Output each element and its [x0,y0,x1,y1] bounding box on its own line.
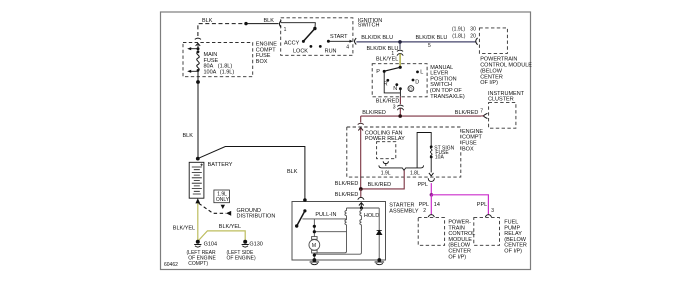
svg-text:BOX: BOX [256,59,268,65]
svg-text:BLK/YEL: BLK/YEL [376,56,398,62]
cooling fan power relay box [377,142,396,159]
svg-text:SWITCH: SWITCH [358,23,380,29]
ground G104 [194,240,201,247]
svg-text:3: 3 [491,208,494,214]
svg-text:ONLY: ONLY [216,197,230,203]
svg-text:PPL: PPL [418,182,428,188]
ground at diode branch [375,262,385,265]
svg-text:5: 5 [428,43,431,49]
svg-text:DISTRIBUTION: DISTRIBUTION [237,214,276,220]
wire coil bottom to motor line [314,231,346,233]
svg-text:1: 1 [284,27,287,33]
wire PPL vertical [430,183,432,195]
svg-text:BLK: BLK [202,18,213,24]
wire PPL to fuel pump relay [431,195,488,215]
ground under motor [310,262,320,265]
connector below fuse box on PPL [428,178,434,181]
svg-text:(1.9L): (1.9L) [220,70,235,76]
wire BLK dashed from main fuse box to splice [198,24,246,36]
svg-text:3: 3 [393,105,396,111]
svg-text:OF I/P): OF I/P) [448,254,466,260]
border frame [161,12,531,270]
node PPL junction [430,193,434,197]
svg-text:(1.8L): (1.8L) [452,33,465,39]
svg-text:100A: 100A [204,70,217,76]
wire dashed ground distribution [199,203,226,213]
wire BLK/DK BLU ignition to PCM [356,41,476,43]
wire BLK/RED bracket to starter junction [361,170,405,189]
svg-text:BLK/RED: BLK/RED [368,182,392,188]
wire stub below junction [399,42,401,49]
node splice on BLK wire [244,22,247,25]
box 1.9L ONLY [214,190,230,203]
starter switch contact [303,209,306,212]
connector at main fuse box top [195,38,201,46]
wire BLK/RED connector to junction [399,108,401,116]
svg-text:CLUSTER: CLUSTER [488,97,514,103]
svg-text:G130: G130 [249,242,262,248]
svg-text:BLK/YEL: BLK/YEL [219,224,241,230]
wire BLK/RED from MLPS pin 3 [399,97,401,104]
wire BLK/YEL battery to G104 [197,203,199,241]
diode [377,230,382,234]
wire motor to ground [313,253,315,260]
svg-text:ASSEMBLY: ASSEMBLY [389,208,419,214]
svg-text:N: N [393,86,397,92]
svg-text:20: 20 [470,33,476,39]
svg-text:R: R [384,81,388,87]
svg-text:TRANSAXLE): TRANSAXLE) [430,94,465,100]
svg-text:1.9L: 1.9L [381,170,391,176]
connector on BLK/RED [397,105,403,110]
powertrain control module box [479,28,507,54]
connector below relay [383,161,388,166]
svg-text:OF ENGINE): OF ENGINE) [227,256,257,262]
powertrain control module box (bottom) [418,218,444,246]
svg-text:P: P [376,69,380,75]
coil hold [314,208,361,254]
node battery wire at box edge [303,198,307,202]
battery [189,162,204,198]
svg-text:D: D [415,79,419,85]
svg-text:BLK/DK BLU: BLK/DK BLU [416,35,448,41]
svg-text:OF I/P): OF I/P) [504,249,522,255]
svg-text:ACCY: ACCY [284,40,300,46]
svg-text:14: 14 [434,202,440,208]
wire BLK solid splice to ignition switch [246,23,279,25]
svg-text:LOCK: LOCK [293,48,308,54]
ignition switch box [281,18,353,56]
connector at ignition switch output [355,38,357,44]
svg-text:BLK/RED: BLK/RED [455,110,479,116]
svg-text:4: 4 [346,45,349,51]
svg-text:(1.9L): (1.9L) [452,26,465,32]
svg-text:2: 2 [423,208,426,214]
wire BLK/RED down into engine compt fuse box [360,116,362,189]
engine compt fuse box (main fuse) [183,43,253,77]
svg-text:BLK/RED: BLK/RED [335,192,359,198]
coil pull-in [316,208,347,253]
arrow from 1.9L ONLY box [221,205,225,209]
ignition switch contacts and wiper [281,23,353,48]
wire BLK battery to starter [198,147,305,200]
wire to st sign fuse [417,133,431,168]
arrow out of fuse box [429,173,434,176]
wire fuse to box bottom [430,157,432,172]
wire pull-in feed [302,218,346,220]
connector on BLK/YEL wire [397,50,403,56]
fuse ST SIGN FUSE 10A [430,145,433,158]
connector at starter solenoid [358,197,364,199]
svg-text:BLK: BLK [183,133,194,139]
ground G130 [242,240,249,247]
starter assembly box [292,202,386,261]
svg-text:7: 7 [480,108,483,114]
battery negative terminal arrow [195,198,200,203]
node below fuse box [196,80,200,84]
motor M [309,237,320,253]
manual lever position switch box [372,64,427,97]
svg-text:PPL: PPL [419,202,429,208]
fuse MAIN FUSE 80A/100A [187,43,199,82]
MLPS wiper and contacts [383,66,419,97]
svg-text:SWITCH: SWITCH [430,82,452,88]
wire BLK fuse box to battery [197,82,199,159]
svg-text:HOLD: HOLD [364,213,379,219]
node battery positive [196,157,200,161]
svg-text:PPL: PPL [477,202,487,208]
node on BLK/DK BLU wire [398,40,402,44]
arrow into starter [359,203,364,208]
svg-text:30: 30 [470,26,476,32]
connector at fuel pump relay pin 3 [485,215,491,217]
svg-text:BLK: BLK [264,18,275,24]
svg-text:10A: 10A [435,155,445,161]
connector arrow at instrument cluster [483,113,487,118]
svg-text:1.8L: 1.8L [410,170,420,176]
svg-text:BOX: BOX [462,146,474,152]
node BLK/RED starter junction [359,187,363,191]
wire diode branch [378,208,380,260]
connector at PCM pin 2 [428,215,434,217]
connector pin 1 ignition switch [279,20,281,27]
svg-text:M: M [312,243,316,249]
svg-text:POWER RELAY: POWER RELAY [365,136,405,142]
wire PPL to PCM pin 2 [430,195,432,215]
svg-text:60462: 60462 [164,262,178,268]
svg-text:COMPT): COMPT) [188,261,208,267]
wire solenoid top feed [347,207,380,209]
svg-text:BLK/RED: BLK/RED [376,99,400,105]
arrow ground distribution [226,211,231,216]
svg-text:L: L [420,69,423,75]
svg-text:BLK/RED: BLK/RED [362,110,386,116]
wire BLK/RED junction to starter [360,189,362,197]
wire BLK/RED horizontal to instrument cluster [361,115,482,117]
wire BLK/YEL to MLPS [399,54,401,68]
wire BLK/YEL branch to G130 [198,231,245,242]
fuel pump relay box [474,218,500,246]
node diode to ground [377,258,381,262]
svg-text:BLK: BLK [287,169,298,175]
engine compt fuse box (cooling fan relay / st sign fuse) [347,127,461,177]
svg-text:START: START [330,34,348,40]
svg-text:BLK/YEL: BLK/YEL [173,225,195,231]
node solenoid top [360,206,363,209]
svg-text:G104: G104 [204,242,217,248]
svg-text:OF I/P): OF I/P) [480,80,498,86]
bracket connectors 1.9L 1.8L [379,165,424,170]
svg-text:BLK/DK BLU: BLK/DK BLU [361,35,393,41]
svg-text:RUN: RUN [325,48,337,54]
node BLK/RED junction [398,114,402,118]
motor feed line [313,219,315,237]
connector at PCM [476,38,478,45]
instrument cluster box [489,103,516,129]
svg-text:BATTERY: BATTERY [208,162,233,168]
svg-text:BLK/RED: BLK/RED [335,181,359,187]
arrow into fuse box [358,123,364,124]
svg-text:PULL-IN: PULL-IN [315,212,336,218]
starter switch blade [297,211,305,226]
